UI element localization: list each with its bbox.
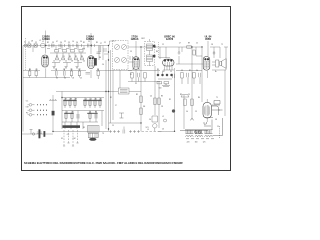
svg-text:R5: R5 <box>96 42 98 44</box>
svg-text:10: 10 <box>53 61 55 63</box>
svg-text:C5: C5 <box>90 99 92 101</box>
svg-text:C5: C5 <box>188 94 190 96</box>
svg-text:L1: L1 <box>42 41 44 43</box>
svg-text:C6: C6 <box>76 42 78 44</box>
svg-text:C8: C8 <box>161 106 163 108</box>
svg-text:C3: C3 <box>89 112 91 114</box>
svg-text:50: 50 <box>80 41 82 43</box>
svg-text:C7: C7 <box>179 43 181 45</box>
svg-text:R8: R8 <box>29 69 31 71</box>
svg-text:25: 25 <box>170 71 172 73</box>
svg-text:C9: C9 <box>88 41 90 43</box>
svg-text:P1: P1 <box>130 74 132 76</box>
svg-text:R9: R9 <box>70 69 72 71</box>
svg-text:SCHEMA ELETTRICO DEL RADIORICE: SCHEMA ELETTRICO DEL RADIORICEVITORE O.E… <box>24 161 183 165</box>
svg-text:C3: C3 <box>130 51 132 53</box>
svg-text:R6: R6 <box>156 51 158 53</box>
svg-text:C3: C3 <box>195 111 197 113</box>
svg-text:6,3: 6,3 <box>204 124 206 126</box>
svg-text:C9: C9 <box>35 69 37 71</box>
svg-text:50: 50 <box>64 78 66 80</box>
svg-text:R9: R9 <box>188 43 190 45</box>
svg-text:22: 22 <box>65 61 67 63</box>
svg-text:C8: C8 <box>31 41 33 43</box>
svg-text:R2: R2 <box>169 99 171 101</box>
svg-text:R4: R4 <box>95 112 97 114</box>
svg-text:R1: R1 <box>83 42 85 44</box>
svg-text:C1: C1 <box>28 42 30 44</box>
svg-text:C2: C2 <box>35 42 37 44</box>
svg-text:L2: L2 <box>162 116 164 118</box>
svg-text:R2: R2 <box>136 94 138 96</box>
svg-text:45B5: 45B5 <box>205 38 212 41</box>
svg-text:25: 25 <box>217 126 219 128</box>
svg-text:500: 500 <box>159 88 162 90</box>
svg-text:22: 22 <box>64 41 66 43</box>
svg-text:47: 47 <box>56 41 58 43</box>
svg-text:25: 25 <box>112 125 114 127</box>
svg-text:P2: P2 <box>135 83 137 85</box>
svg-text:R3: R3 <box>161 96 163 98</box>
svg-text:C5: C5 <box>80 78 82 80</box>
svg-text:C7: C7 <box>115 105 117 107</box>
svg-text:B+: B+ <box>215 71 217 73</box>
svg-text:C5: C5 <box>68 42 70 44</box>
svg-text:47: 47 <box>163 71 165 73</box>
svg-text:22: 22 <box>162 44 164 46</box>
svg-text:C4: C4 <box>60 42 62 44</box>
svg-text:125: 125 <box>203 142 206 144</box>
svg-text:R7: R7 <box>78 69 80 71</box>
svg-text:R1: R1 <box>95 99 97 101</box>
svg-text:C2: C2 <box>66 112 68 114</box>
svg-text:C6: C6 <box>102 64 104 66</box>
svg-text:R3: R3 <box>157 69 159 71</box>
svg-text:C7: C7 <box>100 43 102 45</box>
svg-text:R6: R6 <box>81 56 83 58</box>
svg-text:R7: R7 <box>189 70 191 72</box>
svg-text:C2: C2 <box>138 69 140 71</box>
svg-text:MF2: MF2 <box>141 38 144 40</box>
svg-text:R8: R8 <box>99 57 101 59</box>
svg-text:R9: R9 <box>75 99 77 101</box>
svg-text:R5: R5 <box>83 127 85 129</box>
svg-text:C4: C4 <box>196 70 198 72</box>
svg-text:T2: T2 <box>221 44 223 46</box>
svg-text:R4: R4 <box>69 56 71 58</box>
svg-text:T3: T3 <box>102 133 104 135</box>
svg-text:C3: C3 <box>52 42 54 44</box>
svg-text:L2: L2 <box>39 40 41 42</box>
svg-text:160: 160 <box>195 142 198 144</box>
svg-text:R5: R5 <box>75 56 77 58</box>
svg-text:R6: R6 <box>97 69 99 71</box>
svg-text:C2: C2 <box>55 69 57 71</box>
svg-text:R8: R8 <box>70 99 72 101</box>
svg-text:25: 25 <box>165 84 167 86</box>
svg-text:50: 50 <box>186 111 188 113</box>
svg-text:R2: R2 <box>47 42 49 44</box>
svg-text:C2: C2 <box>104 42 106 44</box>
svg-text:C4: C4 <box>83 61 85 63</box>
svg-text:12BA6: 12BA6 <box>131 38 139 41</box>
svg-text:220: 220 <box>187 142 190 144</box>
svg-text:R1: R1 <box>110 97 112 99</box>
svg-text:C6: C6 <box>149 119 151 121</box>
svg-text:C9: C9 <box>181 70 183 72</box>
svg-text:25: 25 <box>56 78 58 80</box>
svg-text:R1: R1 <box>72 112 74 114</box>
svg-text:R4: R4 <box>198 97 200 99</box>
svg-text:R3: R3 <box>62 56 64 58</box>
svg-text:R3: R3 <box>180 94 182 96</box>
svg-text:T1: T1 <box>216 97 218 99</box>
svg-text:12AT6: 12AT6 <box>166 38 174 41</box>
svg-text:C6: C6 <box>162 129 164 131</box>
svg-text:C3: C3 <box>63 69 65 71</box>
svg-text:R2: R2 <box>56 56 58 58</box>
svg-text:R7: R7 <box>65 99 67 101</box>
svg-text:C8: C8 <box>211 44 213 46</box>
svg-text:R2: R2 <box>100 99 102 101</box>
svg-text:25: 25 <box>196 43 198 45</box>
svg-text:C4: C4 <box>85 99 87 101</box>
svg-text:L5: L5 <box>147 129 149 131</box>
svg-text:47: 47 <box>59 61 61 63</box>
svg-text:10: 10 <box>72 41 74 43</box>
svg-text:C4: C4 <box>150 96 152 98</box>
